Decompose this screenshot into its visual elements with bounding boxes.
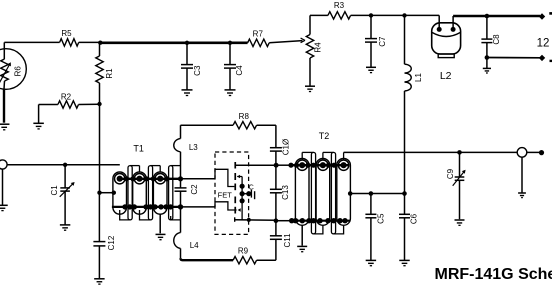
svg-text:R8: R8 — [239, 112, 250, 121]
svg-text:L4: L4 — [190, 241, 199, 250]
svg-text:FET: FET — [218, 190, 233, 199]
svg-text:C4: C4 — [235, 65, 244, 76]
svg-text:MRF-141G Sche: MRF-141G Sche — [435, 266, 552, 283]
svg-text:C5: C5 — [377, 213, 386, 224]
svg-text:12: 12 — [537, 38, 550, 50]
svg-text:C13: C13 — [281, 185, 290, 200]
svg-text:C1: C1 — [50, 185, 59, 196]
svg-text:R7: R7 — [253, 30, 264, 39]
svg-text:C: C — [249, 184, 254, 191]
svg-text:R9: R9 — [238, 247, 249, 256]
svg-text:R1: R1 — [105, 68, 114, 79]
svg-text:R4: R4 — [314, 42, 323, 53]
svg-text:C12: C12 — [107, 235, 116, 250]
svg-text:C11: C11 — [283, 233, 292, 248]
svg-text:R2: R2 — [61, 93, 72, 102]
svg-text:C7: C7 — [378, 36, 387, 47]
svg-text:C8: C8 — [492, 34, 501, 45]
svg-text:R3: R3 — [334, 1, 345, 10]
svg-text:R5: R5 — [61, 29, 72, 38]
svg-text:C9: C9 — [446, 168, 455, 179]
svg-text:L3: L3 — [189, 143, 198, 152]
svg-text:C2: C2 — [190, 184, 199, 195]
svg-text:C3: C3 — [193, 65, 202, 76]
svg-text:R6: R6 — [14, 66, 23, 77]
svg-text:T2: T2 — [319, 131, 330, 141]
svg-text:L2: L2 — [440, 70, 452, 82]
svg-text:L1: L1 — [414, 73, 423, 82]
svg-text:C1Ø: C1Ø — [282, 139, 291, 155]
svg-text:C6: C6 — [410, 213, 419, 224]
svg-text:T1: T1 — [133, 143, 144, 153]
